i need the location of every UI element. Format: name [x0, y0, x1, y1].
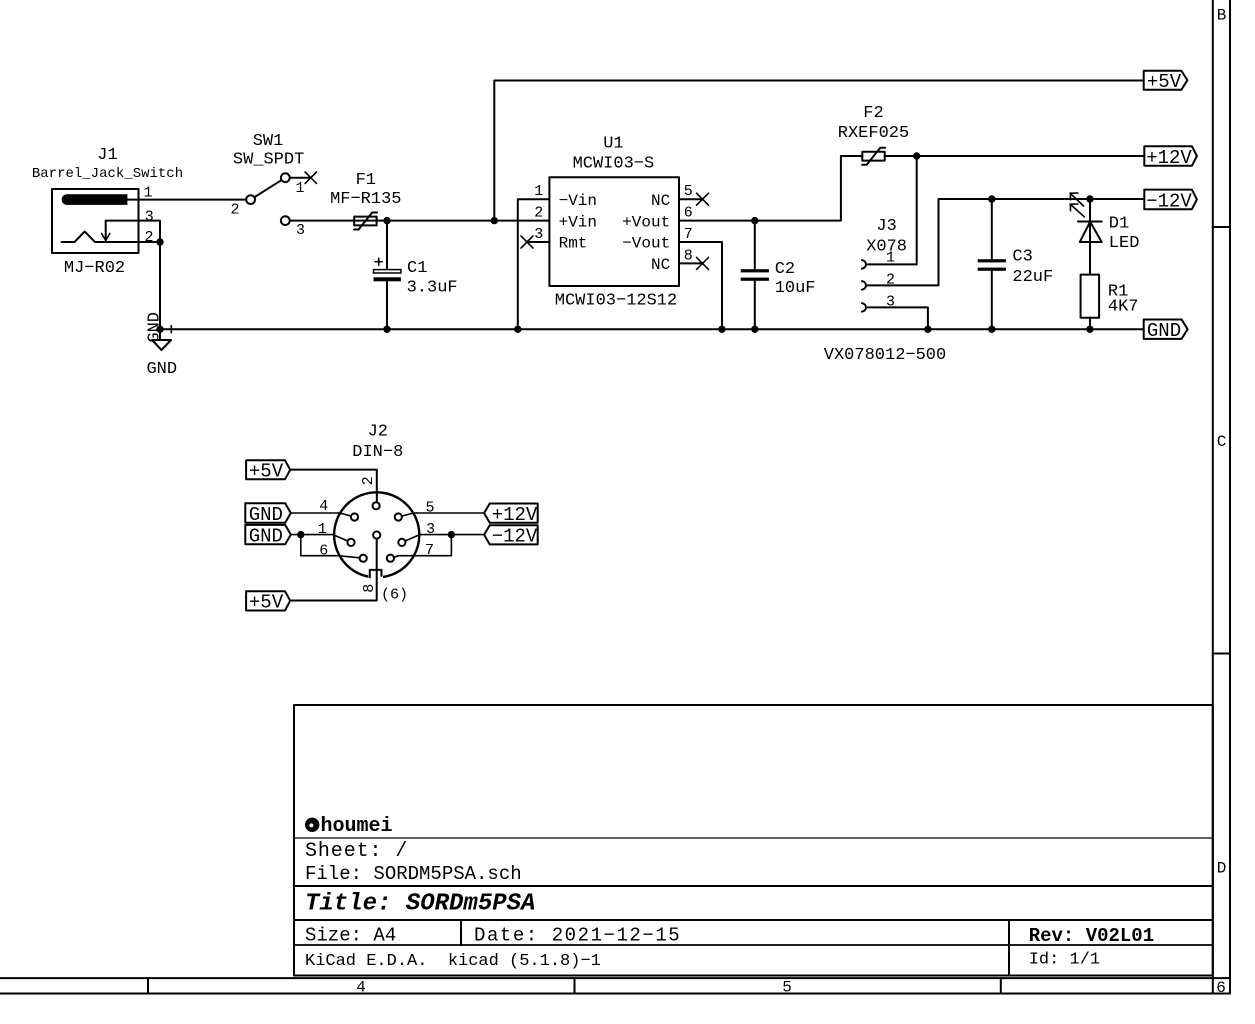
svg-text:Rmt: Rmt — [559, 235, 588, 253]
svg-text:(6): (6) — [381, 587, 408, 604]
power label GND J2 pin4 — [245, 503, 290, 526]
svg-text:3: 3 — [534, 226, 543, 243]
resistor R1 4K7 — [1081, 275, 1139, 318]
svg-text:Id: 1/1: Id: 1/1 — [1029, 950, 1100, 969]
svg-text:6: 6 — [1216, 979, 1226, 997]
svg-text:D1: D1 — [1109, 215, 1129, 234]
LED D1 — [1070, 193, 1139, 275]
svg-text:4: 4 — [356, 979, 366, 997]
pin 1 stub and no-connect — [285, 177, 311, 179]
wire SW1.3 to U1.+Vin — [285, 220, 549, 222]
svg-text:5: 5 — [782, 979, 792, 997]
svg-text:U1: U1 — [603, 135, 623, 154]
wire J1.3 down to J1.2 node — [106, 221, 160, 242]
connector J3 X078 — [824, 217, 946, 365]
svg-text:NC: NC — [651, 256, 670, 274]
junction -12V J2.7 branch — [448, 531, 455, 538]
power label -12V right — [1144, 190, 1197, 213]
power label +5V J2 top — [246, 460, 290, 482]
svg-text:2: 2 — [360, 476, 377, 485]
svg-text:+5V: +5V — [249, 592, 284, 614]
svg-text:B: B — [1217, 7, 1227, 25]
key notch — [370, 570, 382, 578]
wire +5V to J2.8 — [290, 535, 377, 601]
svg-text:5: 5 — [684, 183, 693, 200]
svg-text:GND: GND — [146, 312, 165, 343]
logo houmei — [305, 815, 393, 838]
svg-text:2: 2 — [534, 205, 543, 222]
svg-text:C1: C1 — [407, 259, 427, 278]
svg-text:3: 3 — [145, 209, 154, 226]
svg-text:2: 2 — [230, 202, 239, 219]
svg-text:NC: NC — [651, 192, 670, 210]
pin 3 hook — [862, 303, 866, 312]
svg-text:KiCad E.D.A. kicad (5.1.8)−1: KiCad E.D.A. kicad (5.1.8)−1 — [305, 952, 601, 971]
svg-text:Size: A4: Size: A4 — [305, 924, 396, 946]
svg-text:F1: F1 — [356, 171, 376, 190]
svg-text:MF−R135: MF−R135 — [330, 190, 401, 209]
junction GND corner — [156, 326, 163, 333]
wire J1.2 to node — [139, 241, 161, 243]
switch arrow — [105, 221, 107, 240]
wire U1.7 -Vout to GND — [679, 242, 722, 329]
svg-text:Title: SORDm5PSA: Title: SORDm5PSA — [305, 891, 535, 918]
wire F2 to +12V label — [885, 155, 1145, 157]
svg-text:+Vout: +Vout — [622, 213, 670, 231]
power label GND right — [1144, 320, 1188, 343]
svg-text:22uF: 22uF — [1012, 268, 1053, 287]
wire D1 to R1 — [1089, 242, 1091, 275]
power label +12V J2 pin5 — [484, 504, 538, 527]
power label +12V right — [1144, 146, 1197, 169]
title block — [294, 705, 1213, 976]
svg-text:10uF: 10uF — [775, 279, 816, 298]
wire J2.5 to +12V — [398, 513, 484, 517]
wire R1 to GND — [1089, 318, 1091, 330]
wire J3.2 to -12V rail — [868, 199, 1145, 285]
junction U1.7 gnd — [718, 326, 725, 333]
junction U1.1 gnd — [514, 326, 521, 333]
svg-text:RXEF025: RXEF025 — [838, 124, 909, 143]
svg-text:Barrel_Jack_Switch: Barrel_Jack_Switch — [32, 166, 183, 182]
svg-text:LED: LED — [1109, 234, 1140, 253]
svg-text:7: 7 — [684, 226, 693, 243]
svg-text:8: 8 — [361, 584, 378, 593]
wire J1.1 to SW1.2 — [127, 199, 250, 201]
ground symbol GND — [146, 312, 177, 379]
svg-text:VX078012−500: VX078012−500 — [824, 346, 946, 365]
svg-text:SW1: SW1 — [253, 132, 284, 151]
svg-text:+Vin: +Vin — [559, 213, 597, 231]
capacitor C2 10uF — [741, 221, 816, 330]
J2 pin numbers — [318, 476, 435, 603]
fuse F2 RXEF025 — [838, 104, 909, 165]
power label -12V J2 pin3 — [484, 525, 538, 548]
barrel sleeve bar — [62, 194, 128, 205]
svg-text:3.3uF: 3.3uF — [407, 279, 458, 298]
svg-text:SW_SPDT: SW_SPDT — [233, 151, 304, 170]
emission arrows — [1070, 193, 1084, 217]
svg-text:3: 3 — [426, 521, 435, 538]
lever — [251, 178, 286, 200]
junction GND J2.1 branch — [297, 531, 304, 538]
junction C3 gnd — [988, 326, 995, 333]
svg-text:−Vin: −Vin — [559, 192, 597, 210]
svg-text:GND: GND — [146, 360, 177, 379]
regulator U1 MCWI03-S — [534, 135, 693, 311]
wire J3.3 to GND — [868, 307, 928, 329]
junction +5V branch — [491, 217, 498, 224]
svg-text:DIN−8: DIN−8 — [352, 443, 403, 462]
svg-text:File: SORDM5PSA.sch: File: SORDM5PSA.sch — [305, 863, 522, 885]
switch zigzag — [62, 232, 139, 243]
svg-text:4K7: 4K7 — [1108, 298, 1139, 317]
wire GND to J2.1 — [291, 535, 351, 543]
sheet border frame right — [1213, 0, 1230, 994]
power label +5V right — [1144, 71, 1188, 93]
connector J2 DIN-8 — [334, 423, 419, 581]
svg-text:C3: C3 — [1012, 248, 1032, 267]
svg-text:+5V: +5V — [249, 461, 284, 483]
capacitor C1 3.3uF polarized — [374, 258, 458, 298]
svg-text:houmei: houmei — [321, 815, 393, 838]
svg-text:5: 5 — [425, 500, 434, 517]
svg-text:6: 6 — [684, 205, 693, 222]
svg-text:D: D — [1217, 859, 1227, 877]
svg-text:J2: J2 — [368, 423, 388, 442]
switch SW1 SW_SPDT — [230, 132, 316, 239]
connector J1 Barrel_Jack_Switch — [32, 146, 183, 278]
junction C2 top — [751, 217, 758, 224]
power label +5V J2 pin8 — [246, 591, 290, 613]
svg-text:3: 3 — [296, 222, 305, 239]
junction F2 output — [913, 152, 920, 159]
svg-text:MCWI03−12S12: MCWI03−12S12 — [555, 292, 677, 311]
wire F2 node down to J3.1 — [868, 156, 917, 264]
svg-text:−12V: −12V — [1146, 190, 1192, 212]
capacitor C3 22uF — [978, 199, 1054, 329]
junction C2 gnd — [751, 326, 758, 333]
svg-text:1: 1 — [295, 180, 304, 197]
wire U1.6 +Vout to F2 — [679, 156, 862, 221]
GND bus wire — [160, 328, 1144, 330]
junction C3 top — [988, 195, 995, 202]
wire J2.3 to -12V — [402, 535, 484, 543]
wire C1 to GND bus — [386, 281, 388, 329]
svg-text:MJ−R02: MJ−R02 — [64, 259, 125, 278]
wire +5V branch — [494, 81, 1143, 221]
svg-text:1: 1 — [886, 250, 895, 267]
svg-text:+5V: +5V — [1147, 71, 1182, 93]
svg-text:−Vout: −Vout — [622, 235, 670, 253]
pin U1.5 NC stub no-connect — [679, 198, 702, 200]
svg-text:F2: F2 — [863, 104, 883, 123]
svg-text:1: 1 — [534, 183, 543, 200]
svg-text:+12V: +12V — [492, 504, 538, 526]
pin 1 hook — [862, 260, 866, 269]
svg-text:GND: GND — [1147, 320, 1181, 342]
svg-text:GND: GND — [249, 526, 283, 548]
svg-text:J1: J1 — [97, 146, 117, 165]
svg-text:Sheet: /: Sheet: / — [305, 840, 408, 863]
svg-text:2: 2 — [144, 229, 153, 246]
svg-text:MCWI03−S: MCWI03−S — [573, 155, 655, 174]
wire branch to J2.7 — [390, 535, 451, 559]
power label GND J2 pin1 — [245, 525, 290, 548]
junction C1 gnd — [383, 326, 390, 333]
svg-text:8: 8 — [684, 247, 693, 264]
junction R1 gnd — [1086, 326, 1093, 333]
svg-text:C2: C2 — [775, 260, 795, 279]
svg-text:Date: 2021−12−15: Date: 2021−12−15 — [474, 924, 681, 946]
junction D1 top — [1086, 195, 1093, 202]
pin 2 hook — [862, 281, 866, 290]
wire GND to J2.4 — [291, 513, 355, 517]
wire +5V to J2.2 — [290, 470, 377, 506]
svg-text:C: C — [1217, 433, 1227, 451]
svg-text:1: 1 — [318, 521, 327, 538]
sheet border frame bottom — [0, 978, 1230, 997]
svg-text:GND: GND — [249, 504, 283, 526]
svg-text:4: 4 — [319, 498, 328, 515]
wire F1 node to C1 — [386, 221, 388, 270]
svg-text:+12V: +12V — [1146, 147, 1192, 169]
pin U1.8 NC stub no-connect — [679, 262, 702, 264]
junction F1 output — [383, 217, 390, 224]
fuse F1 MF-R135 — [330, 171, 401, 230]
wire U1.1 -Vin to GND — [518, 199, 550, 329]
wire branch to J2.6 — [301, 535, 363, 559]
wire node down to GND bus — [159, 242, 161, 329]
svg-text:−12V: −12V — [492, 526, 538, 548]
svg-text:J3: J3 — [876, 217, 896, 236]
J2 pin pads — [347, 502, 405, 562]
svg-text:Rev: V02L01: Rev: V02L01 — [1029, 925, 1154, 947]
junction J3.3 gnd — [924, 326, 931, 333]
svg-text:7: 7 — [425, 542, 434, 559]
svg-text:6: 6 — [319, 542, 328, 559]
pin U1.3 Rmt stub no-connect — [527, 241, 549, 243]
junction J1 pin2 node — [156, 238, 163, 245]
